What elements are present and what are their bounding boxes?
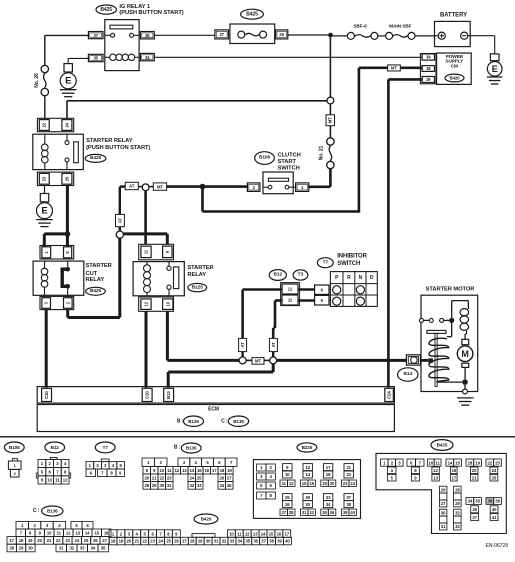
svg-text:32: 32	[190, 483, 195, 488]
svg-text:12: 12	[433, 468, 438, 473]
svg-text:29: 29	[198, 539, 203, 544]
pin 10 (B225)	[163, 299, 173, 310]
field coil	[460, 309, 469, 316]
wire circle2 to B14 / starter motor	[277, 359, 407, 362]
svg-text:27: 27	[227, 476, 232, 481]
separator line	[0, 436, 515, 438]
svg-text:31: 31	[302, 510, 307, 515]
svg-text:ECM: ECM	[208, 406, 219, 412]
svg-text:10: 10	[47, 478, 52, 483]
pin B13 (ECM)	[164, 388, 174, 401]
pin 6 (inhibitor)	[315, 285, 329, 294]
pin 9 (inhibitor)	[315, 295, 329, 305]
wire MT to node C	[167, 185, 203, 188]
svg-text:21: 21	[47, 538, 52, 543]
svg-text:(PUSH BUTTON START): (PUSH BUTTON START)	[119, 10, 183, 16]
svg-text:B225: B225	[192, 284, 203, 290]
wire pin25 down to node B	[66, 186, 69, 234]
connector view B225 oval	[297, 443, 317, 452]
pin 11 (B12/T3)	[282, 295, 298, 305]
svg-text:30: 30	[160, 483, 165, 488]
fuse FB element	[238, 31, 245, 38]
ground E (starter relay PBS)	[40, 194, 48, 202]
svg-text:25: 25	[197, 476, 202, 481]
wire contact to field coil	[451, 301, 453, 318]
svg-text:19: 19	[475, 460, 480, 465]
pin C30 (ECM)	[42, 388, 52, 401]
svg-text:14: 14	[305, 472, 310, 477]
connector B14 box	[406, 355, 420, 365]
wire pin23 to ground	[44, 186, 46, 194]
pin 1 (clutch switch)	[296, 183, 309, 192]
svg-text:19: 19	[322, 481, 327, 486]
svg-text:MAIN SBF: MAIN SBF	[389, 24, 412, 30]
svg-text:17: 17	[9, 538, 14, 543]
connector oval B106 (clutch start switch)	[255, 152, 275, 165]
svg-text:32: 32	[222, 539, 227, 544]
wire circle up to junction A	[329, 35, 331, 97]
B12/T3 connector outer box	[281, 283, 300, 306]
pin 34 (IG relay)	[140, 53, 154, 60]
svg-text:19: 19	[227, 468, 232, 473]
solenoid coil	[429, 338, 449, 382]
relay U-IG1 coil	[110, 54, 116, 60]
svg-text:35: 35	[227, 483, 232, 488]
wire SBF-6 to MAIN SBF	[378, 35, 386, 37]
svg-text:B135: B135	[186, 446, 197, 451]
svg-text:18: 18	[220, 468, 225, 473]
pin 22 (starter relay PBS)	[39, 120, 49, 131]
svg-text:38: 38	[346, 502, 351, 507]
wire pin24 to bus	[66, 101, 68, 119]
connector view B425 lower columns	[439, 486, 447, 493]
svg-text:SWITCH: SWITCH	[337, 261, 360, 267]
svg-text:RELAY: RELAY	[86, 277, 105, 283]
svg-text:39: 39	[495, 499, 500, 504]
svg-text:23: 23	[65, 538, 70, 543]
svg-text:B136: B136	[233, 419, 244, 424]
starter motor box	[421, 295, 478, 391]
connector oval T7	[317, 258, 333, 268]
svg-text:C24: C24	[387, 391, 392, 399]
pin 25 (starter relay PBS)	[62, 173, 72, 184]
connector MT box	[153, 183, 166, 190]
svg-text:STARTER: STARTER	[187, 265, 214, 271]
connector AT (P position)	[239, 338, 247, 351]
svg-text:29: 29	[152, 483, 157, 488]
svg-text:24: 24	[75, 538, 80, 543]
connector view B225 outline	[253, 460, 360, 519]
wire node B to pin6	[66, 234, 69, 247]
connector view B425 group 34-37	[466, 498, 474, 505]
svg-text:30: 30	[206, 539, 211, 544]
svg-text:31: 31	[167, 483, 172, 488]
svg-text:E: E	[65, 76, 71, 87]
wire solenoid contact feed	[451, 323, 453, 337]
wire solenoid to node D	[438, 381, 462, 383]
svg-text:14: 14	[261, 531, 266, 536]
svg-text:37: 37	[261, 539, 266, 544]
svg-text:23: 23	[167, 476, 172, 481]
connector view B136 row3	[7, 537, 16, 545]
wire to pin 37	[45, 34, 89, 36]
motor brush top	[462, 339, 469, 344]
connector oval B12	[269, 270, 286, 281]
svg-text:21: 21	[346, 465, 351, 470]
pin 6 (starter cut relay)	[64, 247, 72, 258]
svg-text:33: 33	[197, 483, 202, 488]
ground (starter motor)	[457, 397, 474, 399]
svg-text:25: 25	[492, 475, 497, 480]
svg-text:INHIBITOR: INHIBITOR	[337, 254, 367, 260]
wire circle AT/MT down to B225 pin 11	[144, 191, 147, 245]
starter cut relay bottom pin row	[40, 296, 74, 309]
svg-text:35: 35	[475, 499, 480, 504]
pin C24 (ECM)	[385, 388, 394, 401]
pin 35 (IG relay)	[88, 54, 103, 61]
connector view B225 groups	[283, 464, 292, 471]
wire pin2 loop to AT node	[66, 310, 69, 318]
svg-text:SBF-6: SBF-6	[353, 24, 367, 30]
svg-text:20: 20	[472, 468, 477, 473]
wire AT box down to circle	[119, 227, 121, 231]
svg-text:SWITCH: SWITCH	[278, 165, 300, 171]
svg-text:C :: C :	[33, 508, 40, 514]
pin 2 (starter cut relay)	[64, 298, 73, 309]
svg-text:15: 15	[455, 460, 460, 465]
svg-text:37: 37	[472, 515, 477, 520]
connector circle (start signal)	[327, 97, 334, 104]
wire junction to SBF-6	[331, 35, 348, 37]
connector AT (N position)	[269, 338, 277, 351]
svg-text:B106: B106	[259, 155, 270, 161]
svg-text:11: 11	[167, 468, 172, 473]
svg-text:25: 25	[285, 495, 290, 500]
connector view B425 oval	[431, 440, 453, 451]
pin 26 (fuse)	[276, 30, 288, 39]
svg-text:18: 18	[19, 538, 24, 543]
svg-text:36: 36	[145, 33, 150, 38]
svg-text:16: 16	[104, 531, 109, 536]
svg-text:33: 33	[326, 495, 331, 500]
svg-text:10: 10	[160, 468, 165, 473]
svg-text:21: 21	[472, 475, 477, 480]
svg-text:14: 14	[85, 531, 90, 536]
wire pin12 to inhibitor pin6	[298, 288, 315, 290]
connector oval B420	[445, 74, 464, 82]
relay PBS coil	[42, 144, 49, 151]
wire pin12 to ECM C20	[145, 311, 148, 387]
svg-text:19: 19	[119, 539, 124, 544]
wire IG relay pin34 to CM pin34	[154, 56, 422, 58]
svg-text:B :: B :	[177, 418, 184, 424]
svg-text:30: 30	[441, 510, 446, 515]
svg-text:31: 31	[59, 546, 64, 551]
node C junction	[200, 184, 206, 190]
pin 34 (power supply CM)	[422, 54, 434, 60]
svg-text:(PUSH BUTTON START): (PUSH BUTTON START)	[86, 145, 150, 151]
svg-text:31: 31	[441, 524, 446, 529]
svg-text:20: 20	[127, 539, 132, 544]
svg-text:29: 29	[455, 501, 460, 506]
wire MAIN SBF to battery	[415, 35, 435, 37]
svg-text:15: 15	[197, 468, 202, 473]
starter relay PBS top pin row	[37, 118, 73, 131]
relay PBS contact	[65, 141, 69, 145]
svg-text:10: 10	[165, 301, 170, 306]
svg-text:E: E	[492, 64, 498, 74]
connector MT (between circles)	[252, 358, 264, 365]
svg-text:AT: AT	[117, 218, 122, 224]
svg-text:AT: AT	[271, 342, 276, 348]
svg-text:12: 12	[144, 301, 149, 306]
wire CM pin18 MT down	[359, 67, 388, 70]
pin 29 (power supply CM)	[422, 77, 434, 83]
power supply CM box	[437, 53, 472, 84]
starter cut relay contact (closed)	[65, 267, 70, 272]
wire field coil to motor	[466, 330, 468, 334]
svg-text:B425: B425	[100, 7, 112, 13]
svg-text:34: 34	[326, 502, 331, 507]
wire battery plus feed	[435, 35, 439, 37]
pin 1 (starter cut relay)	[42, 247, 51, 258]
connector view B425 group 38-41	[486, 498, 494, 505]
svg-text:39: 39	[277, 539, 282, 544]
svg-text:34: 34	[468, 499, 473, 504]
svg-text:40: 40	[492, 507, 497, 512]
svg-text:22: 22	[160, 476, 165, 481]
wire No.26 to pin 22	[44, 96, 46, 119]
svg-text:14: 14	[190, 468, 195, 473]
svg-text:CUT: CUT	[86, 271, 98, 277]
svg-text:33: 33	[80, 546, 85, 551]
svg-text:26: 26	[285, 502, 290, 507]
svg-text:13: 13	[253, 531, 258, 536]
svg-text:23: 23	[495, 460, 500, 465]
connector circle (motor ground)	[463, 389, 468, 394]
svg-text:28: 28	[145, 483, 150, 488]
svg-text:11: 11	[237, 531, 242, 536]
svg-text:MT: MT	[157, 184, 164, 189]
svg-text:10: 10	[429, 460, 434, 465]
svg-text:38: 38	[269, 539, 274, 544]
svg-text:11: 11	[282, 481, 287, 486]
connector view B12 oval	[45, 442, 65, 453]
connector AT (left branch)	[116, 214, 125, 226]
svg-text:34: 34	[426, 55, 431, 60]
svg-text:B106: B106	[9, 445, 20, 450]
wire pin11 left down to AT	[275, 299, 282, 302]
svg-text:B12: B12	[274, 272, 283, 278]
svg-text:B13: B13	[166, 391, 171, 399]
starter cut relay top pin row	[40, 246, 74, 260]
svg-text:B12: B12	[51, 445, 60, 450]
svg-text:B425: B425	[90, 155, 101, 161]
node D junction	[462, 379, 468, 385]
wire node D to ground circle	[464, 385, 466, 389]
svg-text:C30: C30	[44, 391, 49, 399]
svg-text:B425: B425	[246, 11, 258, 17]
clutch switch button bar	[268, 178, 288, 181]
svg-text:29: 29	[426, 77, 431, 82]
connector view B136 row4	[7, 544, 16, 552]
clutch switch contacts	[268, 185, 272, 189]
svg-text:32: 32	[70, 546, 75, 551]
connector MT (CM pin 18)	[400, 67, 422, 70]
connector view B420 row2	[109, 537, 117, 545]
svg-text:START: START	[278, 159, 297, 165]
svg-text:31: 31	[214, 539, 219, 544]
starter relay B225 bottom pin row	[139, 297, 174, 311]
connector view B12	[50, 457, 57, 459]
svg-text:T7: T7	[323, 259, 329, 265]
svg-text:AT: AT	[240, 342, 245, 348]
connector B14 junction square	[428, 358, 433, 362]
connector MT (clutch branch)	[326, 115, 335, 126]
fuse FB box	[230, 24, 275, 44]
pin 27 (fuse)	[215, 30, 229, 39]
wire battery minus to ground	[468, 35, 495, 37]
connector oval T3	[293, 270, 308, 280]
motor M	[457, 346, 473, 362]
wire pin 26 to junction	[288, 34, 331, 36]
connector view B420 row1	[109, 530, 117, 538]
wire CM pin29 down to ECM C24	[388, 78, 422, 81]
svg-text:15: 15	[269, 531, 274, 536]
wire down from pin-37 feed	[44, 35, 46, 65]
svg-text:26: 26	[441, 487, 446, 492]
svg-text:41: 41	[492, 515, 497, 520]
svg-text:22: 22	[56, 538, 61, 543]
ground E (battery)	[490, 54, 499, 61]
wire B14 into solenoid	[420, 359, 428, 362]
ECM pin header box	[37, 387, 394, 404]
svg-text:28: 28	[289, 510, 294, 515]
connector view B106 oval	[4, 442, 24, 453]
svg-text:E: E	[41, 206, 47, 217]
connector view B135 row1	[142, 458, 155, 466]
wire clutch pin1 up	[309, 186, 331, 189]
svg-text:24: 24	[350, 481, 355, 486]
pin 12 (B12/T3)	[282, 284, 298, 294]
wire pin 35 to ground	[68, 57, 88, 59]
svg-text:EN-06728: EN-06728	[485, 543, 508, 549]
svg-text:25: 25	[166, 539, 171, 544]
svg-text:12: 12	[175, 468, 180, 473]
svg-text:17: 17	[212, 468, 217, 473]
connector view B425 top groups	[381, 459, 389, 466]
svg-text:35: 35	[246, 539, 251, 544]
svg-text:33: 33	[455, 524, 460, 529]
svg-text:STARTER: STARTER	[86, 263, 113, 269]
starter cut relay coil	[41, 268, 48, 275]
svg-text:26: 26	[93, 538, 98, 543]
connector view B136 row1	[16, 521, 28, 529]
svg-text:18: 18	[111, 539, 116, 544]
svg-text:IG RELAY 1: IG RELAY 1	[119, 4, 150, 10]
svg-text:AT: AT	[129, 184, 135, 189]
svg-text:20: 20	[37, 538, 42, 543]
svg-text:C :: C :	[221, 418, 228, 424]
svg-text:18: 18	[468, 460, 473, 465]
svg-text:STARTER MOTOR: STARTER MOTOR	[426, 286, 476, 292]
relay U-IG1 contact bar	[110, 25, 133, 29]
svg-text:36: 36	[253, 539, 258, 544]
junction node A	[328, 33, 333, 38]
svg-text:38: 38	[488, 499, 493, 504]
svg-text:28: 28	[455, 487, 460, 492]
pin C20 (ECM)	[142, 388, 152, 401]
connector oval B425 (IG relay 1)	[96, 5, 116, 14]
wire No21 to MT connector	[329, 126, 331, 138]
svg-text:13: 13	[182, 468, 187, 473]
svg-text:B425: B425	[437, 443, 448, 448]
svg-text:16: 16	[309, 481, 314, 486]
ground E (IG relay)	[64, 64, 72, 72]
svg-text:35: 35	[93, 56, 98, 61]
svg-text:23: 23	[150, 539, 155, 544]
connector oval B14	[398, 368, 418, 381]
svg-text:22: 22	[142, 539, 147, 544]
motor brush bottom	[462, 363, 469, 367]
svg-text:24: 24	[190, 476, 195, 481]
connector oval B225	[188, 283, 207, 291]
svg-text:11: 11	[55, 478, 60, 483]
connector view B106	[12, 459, 17, 461]
fusible link No. 21	[327, 161, 334, 168]
wire bus y101	[67, 100, 327, 102]
svg-text:B136: B136	[47, 509, 58, 514]
svg-text:B135: B135	[188, 419, 199, 424]
svg-text:36: 36	[472, 507, 477, 512]
svg-text:24: 24	[492, 468, 497, 473]
svg-text:R: R	[347, 275, 351, 281]
connector view T7 oval	[95, 442, 115, 453]
solenoid contact row	[419, 318, 423, 322]
wire pin12 left down to AT	[243, 288, 282, 291]
wire pin3 to ECM C30	[45, 310, 48, 388]
svg-text:10: 10	[285, 472, 290, 477]
svg-text:29: 29	[19, 546, 24, 551]
svg-text:CLUTCH: CLUTCH	[278, 152, 301, 158]
connector view B135 row3	[143, 474, 151, 482]
connector view B136 row2	[16, 529, 26, 537]
svg-text:24: 24	[64, 122, 69, 127]
wire circle2 down to ECM B13	[272, 364, 275, 372]
starter relay PBS bottom pin row	[37, 172, 73, 185]
svg-text:34: 34	[238, 539, 243, 544]
wire motor to node D	[464, 367, 466, 379]
inhibitor switch contacts P/N	[333, 286, 341, 294]
svg-text:26: 26	[279, 32, 284, 37]
svg-text:40: 40	[350, 510, 355, 515]
svg-text:MT: MT	[391, 66, 398, 71]
connector view B135 row2	[143, 466, 151, 474]
svg-text:12: 12	[63, 478, 68, 483]
pin 2 (clutch switch)	[247, 183, 260, 192]
wire MT connector to circle	[329, 104, 331, 115]
wire circle to pin9 of B225	[123, 232, 167, 235]
svg-text:32: 32	[455, 510, 460, 515]
pin 11 (B225)	[141, 246, 151, 258]
connector AT box	[125, 182, 138, 189]
wire pin 36 to fuse pin 27	[154, 34, 215, 36]
relay B225 contact	[167, 266, 171, 270]
svg-text:39: 39	[343, 510, 348, 515]
svg-text:N: N	[359, 275, 363, 281]
inhibitor switch table	[330, 272, 377, 307]
svg-text:10: 10	[229, 531, 234, 536]
